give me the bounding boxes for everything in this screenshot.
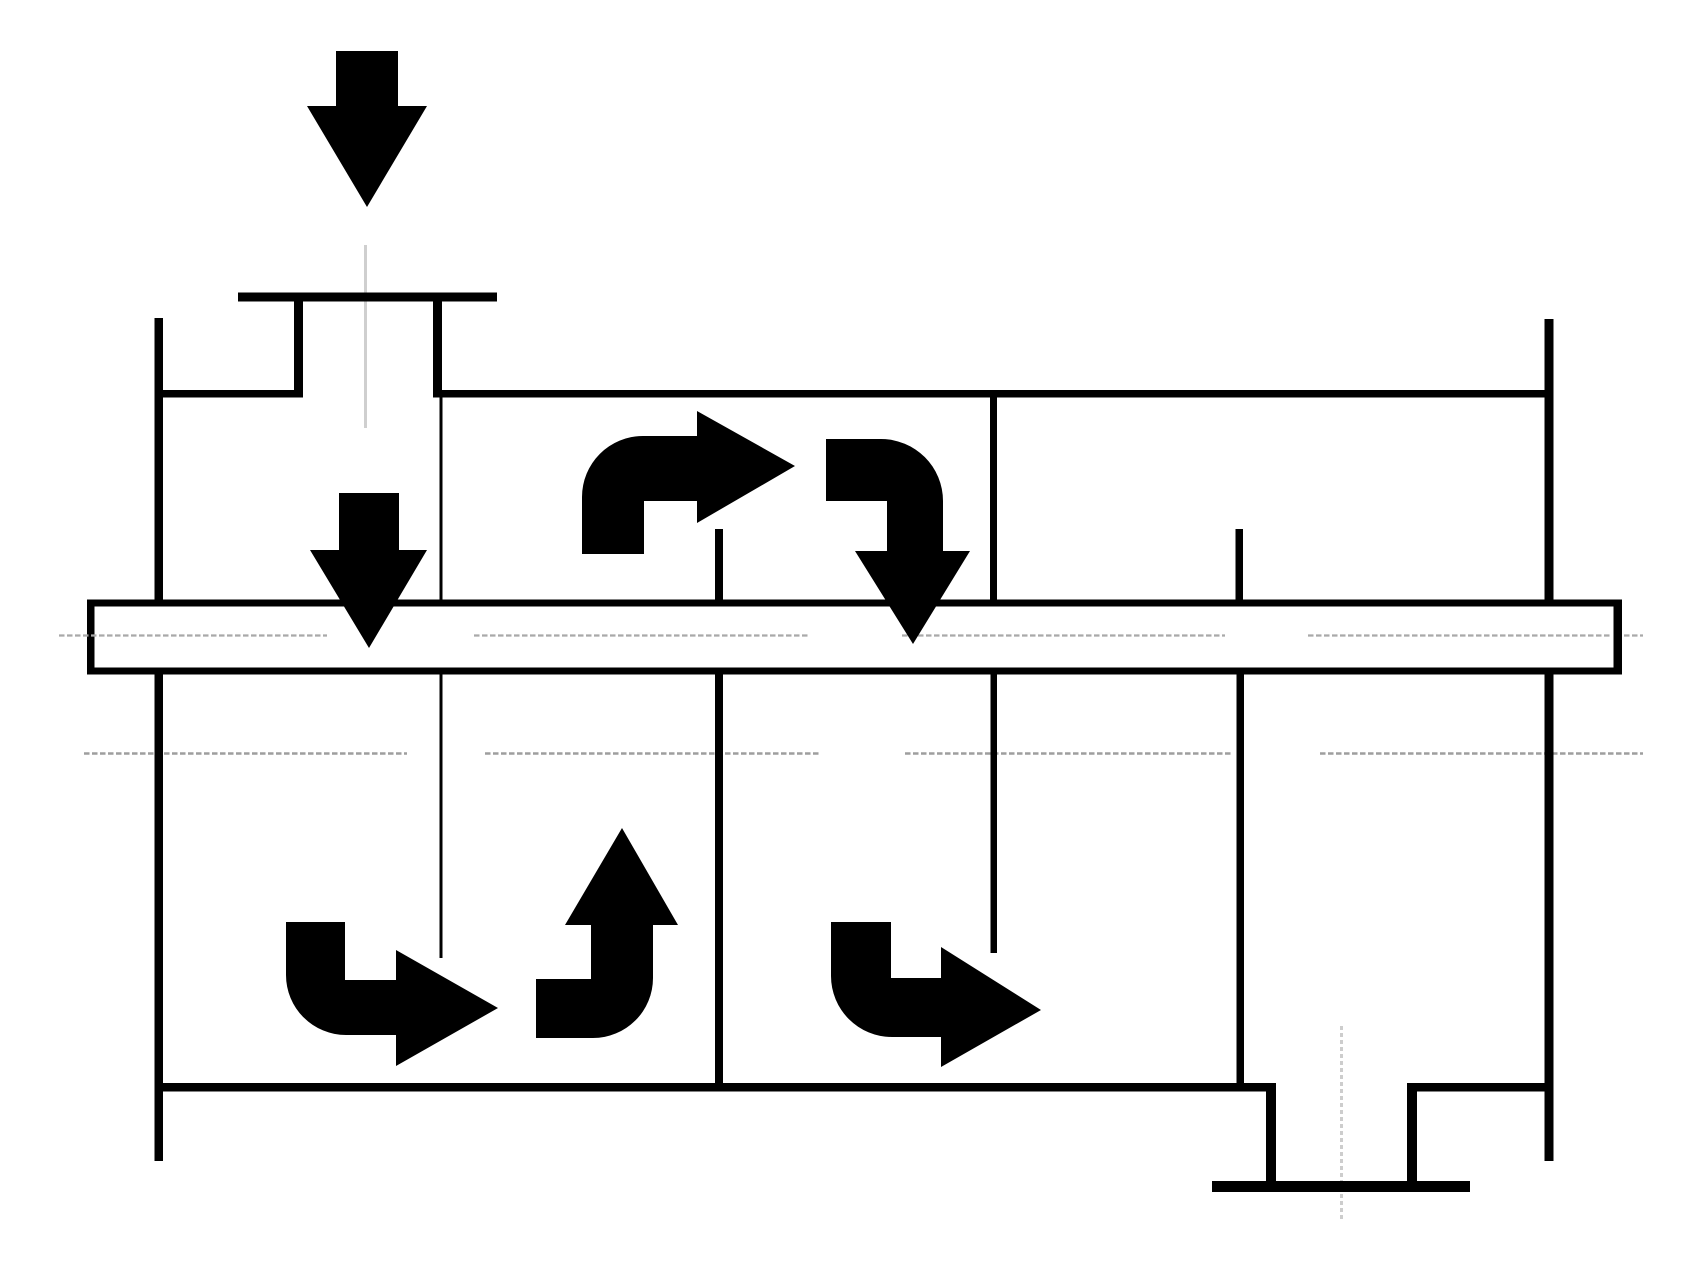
tank bottom, right segment — [1407, 1083, 1554, 1092]
tank top, right segment — [433, 390, 1554, 398]
water level centerline below band (gray dashed) — [84, 752, 1643, 754]
horizontal channel band frame — [87, 600, 1622, 675]
baffle below band reaching bottom (fourth divider) — [1237, 674, 1245, 1087]
thin baffle below inlet, above band — [440, 397, 443, 600]
stub baffle above band (fourth divider) — [1236, 529, 1244, 600]
hanging baffle below band (third divider) — [991, 674, 998, 953]
outlet pipe centerline (gray dashed) — [1340, 1026, 1343, 1222]
inlet flow arrow (top, pointing down) — [307, 51, 427, 207]
outlet flange — [1212, 1181, 1470, 1192]
stub baffle above band (second compartment) — [715, 529, 723, 600]
band centerline segments (gray dashed) — [59, 634, 1643, 636]
baffle below band reaching bottom (second compartment) — [715, 674, 723, 1087]
outlet pipe left wall — [1266, 1083, 1276, 1182]
outlet pipe right wall — [1407, 1083, 1417, 1182]
horizontal channel band interior — [95, 607, 1614, 668]
elbow arrow down-then-right (lower first compartment) — [286, 922, 498, 1066]
elbow arrow right-then-up (lower second compartment) — [536, 828, 678, 1038]
thin baffle below inlet, below band — [440, 674, 443, 958]
tank right wall — [1545, 319, 1554, 1161]
elbow arrow right-then-down (upper third compartment) — [826, 439, 970, 644]
tank top, left segment — [155, 390, 304, 398]
full upper baffle (third divider) — [990, 397, 997, 600]
inlet flange — [238, 293, 497, 302]
down arrow into band (first compartment) — [310, 493, 427, 648]
inlet pipe centerline (gray) — [364, 245, 367, 428]
elbow arrow up-then-right (upper second compartment) — [582, 411, 795, 554]
inlet pipe right wall — [433, 301, 442, 397]
tank left wall — [155, 318, 164, 1161]
tank bottom, left segment — [155, 1083, 1277, 1092]
inlet pipe left wall — [294, 301, 303, 397]
elbow arrow down-then-right (lower third compartment) — [831, 922, 1041, 1067]
